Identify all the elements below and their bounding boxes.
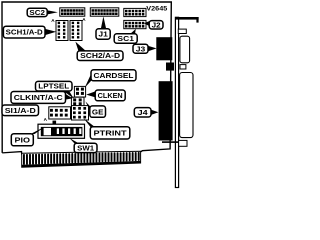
svg-text:SCH2/A-D: SCH2/A-D (80, 53, 120, 60)
svg-text:PTRINT: PTRINT (94, 129, 128, 138)
svg-text:V2645: V2645 (146, 5, 168, 12)
svg-text:SI1/A-D: SI1/A-D (5, 108, 36, 115)
svg-text:SW1: SW1 (77, 143, 94, 152)
svg-text:CARDSEL: CARDSEL (94, 71, 135, 80)
svg-text:CLKINT/A-C: CLKINT/A-C (14, 93, 63, 102)
svg-text:SC2: SC2 (29, 8, 45, 17)
svg-text:LPTSEL: LPTSEL (38, 84, 70, 91)
svg-text:PIO: PIO (15, 135, 31, 144)
svg-text:J1: J1 (98, 30, 108, 39)
svg-text:SC1: SC1 (117, 34, 134, 43)
svg-text:J3: J3 (136, 44, 146, 53)
svg-text:GE: GE (92, 107, 104, 116)
svg-text:CLKEN: CLKEN (98, 93, 123, 100)
svg-text:J4: J4 (138, 108, 149, 117)
svg-text:SCH1/A-D: SCH1/A-D (6, 28, 43, 37)
svg-text:J2: J2 (152, 20, 161, 29)
